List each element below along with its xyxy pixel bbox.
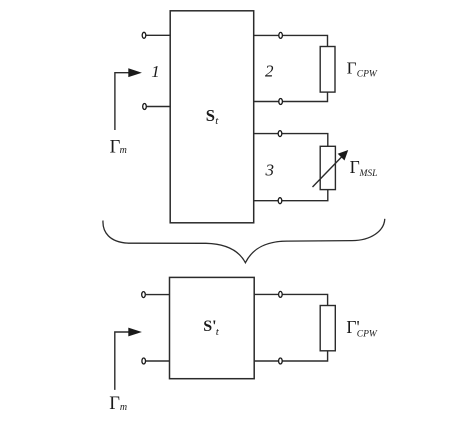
svg-text:t: t [215,115,219,127]
svg-text:t: t [216,326,220,338]
svg-text:CPW: CPW [357,69,378,79]
svg-text:2: 2 [265,61,274,80]
network block St [170,11,254,223]
arrowhead GammaMSL [338,150,349,161]
wire port2 top [254,35,328,46]
terminal bottom-left bottom [142,358,146,364]
terminal bottom-right top [279,291,283,297]
brace [103,219,385,263]
label Gamma_MSL [350,157,378,179]
arrowhead Gamma_m bottom [128,328,142,337]
label St [206,106,219,127]
wire port1 top [146,34,170,36]
wire port3 bottom [254,190,328,201]
arrow through GammaMSL (variable) [313,156,343,187]
load resistor GammaCPW [320,47,335,93]
svg-text:MSL: MSL [359,169,378,179]
variable load resistor GammaMSL [320,146,335,189]
arrowhead Gamma_m top [128,68,142,77]
terminal port2 bottom [279,99,283,105]
svg-text:3: 3 [265,160,275,179]
terminal bottom-left top [142,292,146,298]
label Gamma_CPW [347,58,378,79]
label S't [203,318,220,338]
svg-text:S': S' [203,318,216,335]
load resistor Gamma'CPW [320,306,335,351]
wire bottom port2 top [254,294,327,305]
svg-text:Γ: Γ [350,157,360,177]
wire port3 top [254,134,328,147]
terminal port2 top [279,32,283,38]
terminal port3 bottom [278,198,282,204]
svg-text:Γ: Γ [347,58,357,77]
wire port2 bottom [254,92,328,101]
svg-text:m: m [120,402,127,413]
wire port1 bottom [147,106,171,108]
network block S't [170,277,255,378]
svg-text:CPW: CPW [357,330,378,340]
svg-text:S: S [206,106,215,125]
terminal port1 top [142,32,146,38]
wire bottom port2 bottom [254,351,327,361]
arrow Gamma_m (top) [115,73,132,130]
label Gamma_m bottom [109,394,127,414]
wire bottom port1 bottom [146,360,170,362]
svg-text:m: m [120,145,127,156]
terminal bottom-right bottom [279,358,283,364]
wire bottom port1 top [146,294,170,296]
terminal port3 top [278,131,282,137]
svg-text:Γ: Γ [109,394,120,414]
label Gamma'_CPW [346,317,378,340]
label Gamma_m top [110,137,127,157]
terminal port1 bottom [143,104,147,110]
svg-text:1: 1 [151,62,160,81]
arrow Gamma_m (bottom) [115,332,132,390]
